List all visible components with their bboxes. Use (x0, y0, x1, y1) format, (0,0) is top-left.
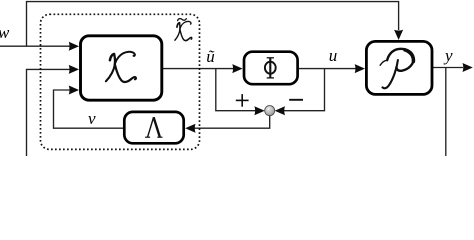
svg-text:y: y (443, 46, 453, 65)
svg-text:v: v (88, 109, 96, 128)
tilde (178, 19, 187, 21)
script K-tilde label above dashed box (175, 19, 192, 41)
arrowhead into P (u) (355, 64, 365, 73)
arrowhead into summing junction from left (plus) (254, 106, 264, 115)
wire v from Lambda output to K input 3 (54, 90, 124, 128)
plus sign at summing junction (236, 94, 249, 107)
arrowhead output y at right edge (463, 63, 473, 72)
dashed box K-tilde (41, 14, 200, 149)
block P (366, 41, 432, 94)
small script K (175, 21, 192, 40)
script P glyph in block P (380, 49, 413, 88)
arrowhead into K input 3 (v) (69, 86, 79, 95)
wire y tap down to bottom edge (445, 68, 447, 157)
block K (81, 36, 162, 100)
wire u-tilde from K to Phi (163, 68, 234, 70)
wire w input to K (0, 45, 70, 47)
arrowhead into summing junction from right (minus) (275, 106, 285, 115)
block Lambda (124, 112, 183, 143)
wire u from Phi to P (299, 68, 356, 70)
leg sweeping to bottom right tail (115, 65, 136, 82)
wire y output from P (433, 67, 463, 69)
wire from bottom edge into K input 2 (27, 69, 71, 156)
minus sign at summing junction (289, 99, 303, 101)
stem (383, 60, 398, 88)
wire tap u down to summing junction minus input (284, 69, 325, 111)
heavy right side of bowl (405, 50, 414, 62)
Lambda glyph in block Lambda (145, 117, 162, 137)
arrowhead into K input 2 (69, 65, 79, 74)
bowl loop (387, 49, 413, 71)
summing junction ball (265, 106, 275, 116)
left stroke lower: junction down-left to foot (106, 64, 115, 81)
svg-text:w: w (0, 23, 10, 42)
wire summing junction output down and left to Lambda (194, 115, 270, 128)
wire tap u-tilde down to summing junction plus input (216, 69, 256, 111)
svg-text:u: u (329, 46, 338, 65)
top horn of left stroke (110, 54, 114, 60)
arrowhead into Phi (u-tilde) (232, 64, 242, 73)
script K glyph in block K (106, 52, 136, 82)
svg-text:ũ: ũ (206, 47, 215, 66)
upper arm sweeping to top right curl (115, 52, 135, 63)
left stroke upper: horn down to junction peak (113, 54, 116, 64)
arrowhead into P top (w branch) (394, 30, 403, 40)
arrowhead into K input 1 (w) (69, 42, 79, 51)
arrowhead into Lambda right side (185, 124, 195, 133)
wire w branch up and along top to P (27, 2, 399, 47)
Phi glyph in block Phi (265, 58, 276, 79)
block Phi (244, 52, 298, 84)
entry swash (380, 60, 387, 65)
